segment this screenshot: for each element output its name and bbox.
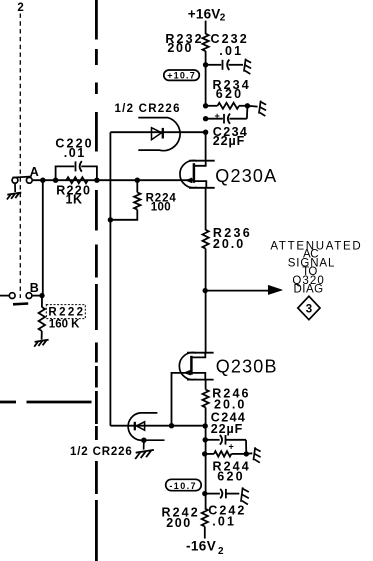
svg-text:20.0: 20.0 <box>214 397 246 411</box>
diode CR226 top package loop <box>138 118 180 151</box>
svg-text:.01: .01 <box>64 146 86 160</box>
label 2 for dashed line <box>17 2 23 14</box>
resistor R220 <box>66 177 88 183</box>
svg-text:620: 620 <box>217 469 244 483</box>
diode CR226 bottom <box>135 422 145 431</box>
node output junction <box>203 288 208 293</box>
ground chassis for R222 <box>34 340 48 347</box>
node R244 right junction <box>244 451 249 456</box>
node R224 junction <box>135 178 140 183</box>
label 1/2 CR226 bottom <box>70 446 133 458</box>
wire R246 down <box>205 407 207 454</box>
wire R242 to -16V <box>204 527 206 539</box>
ground chassis for C232 <box>244 59 251 74</box>
svg-text:20.0: 20.0 <box>213 237 245 251</box>
label A <box>30 165 39 179</box>
wire switch A to ground <box>14 183 16 192</box>
node CR226 loop ground junction <box>141 438 146 443</box>
svg-text:-16V: -16V <box>186 539 216 554</box>
resistor R222 <box>39 296 45 340</box>
resistor R236 <box>203 230 209 249</box>
label Q230B <box>216 356 278 376</box>
wire loop to ground <box>143 440 145 449</box>
wire node A to node B <box>42 180 44 295</box>
label R224 100 <box>146 192 177 213</box>
diagram reference diamond 3 <box>298 296 320 320</box>
capacitor C234 electrolytic <box>206 106 248 124</box>
diode CR226 bottom package loop <box>128 413 164 440</box>
svg-text:200: 200 <box>166 516 192 530</box>
label C232 .01 <box>211 32 249 58</box>
node C244 junction <box>203 437 208 442</box>
wire CR226 top diode <box>110 131 205 133</box>
node C232 junction <box>203 62 208 67</box>
wire +16V to R232 <box>205 21 207 34</box>
transistor Q230A <box>180 161 215 188</box>
label R246 20.0 <box>212 386 250 411</box>
ground chassis for C242 <box>241 487 249 504</box>
wire to C242 node <box>205 454 207 509</box>
node R234 right junction <box>245 103 250 108</box>
wire diode bus vertical <box>109 132 111 426</box>
svg-text:+10.7: +10.7 <box>167 71 196 81</box>
svg-text:Q230A: Q230A <box>215 166 277 186</box>
switch contact B <box>9 293 43 305</box>
svg-text:DIAG: DIAG <box>293 284 323 296</box>
node C220 right junction <box>94 178 99 183</box>
node C220 left junction <box>53 178 58 183</box>
svg-text:-10.7: -10.7 <box>169 481 197 491</box>
wire Q230B collector down <box>205 380 207 390</box>
label R244 620 <box>213 459 251 483</box>
svg-text:22µF: 22µF <box>213 134 245 148</box>
label C234 22uF <box>213 125 248 148</box>
capacitor C244 electrolytic <box>206 435 247 454</box>
svg-text:1/2 CR226: 1/2 CR226 <box>70 446 133 458</box>
node R244 junction <box>202 451 207 456</box>
svg-text:+16V: +16V <box>188 7 221 22</box>
wire R234 node to ground <box>247 105 257 108</box>
test voltage oval -10.7 <box>166 479 202 491</box>
transistor Q230B <box>179 352 213 379</box>
wire main line above Q230A <box>205 132 207 161</box>
wire node A <box>32 179 194 181</box>
power -16V2 label <box>186 539 224 557</box>
shield boundary heavy dashed vertical line <box>95 0 98 561</box>
node C234 junction <box>203 116 208 121</box>
node A-B branch junction <box>40 178 45 183</box>
capacitor C232 <box>206 60 243 71</box>
capacitor C220 bypass loop <box>56 161 97 180</box>
label C242 .01 <box>208 503 246 528</box>
wire into switch B <box>0 295 9 297</box>
node R224 bottom junction <box>108 217 113 222</box>
label R234 620 <box>213 78 251 101</box>
svg-text:100: 100 <box>151 201 171 213</box>
svg-text:200: 200 <box>167 41 193 55</box>
svg-text:+: + <box>229 442 234 452</box>
ground chassis for R244 <box>253 447 260 462</box>
svg-text:2: 2 <box>17 2 23 14</box>
svg-text:.01: .01 <box>219 44 243 58</box>
label 1/2 CR226 top <box>115 103 181 115</box>
label B <box>30 281 39 295</box>
svg-text:22µF: 22µF <box>211 422 243 436</box>
ground chassis at switch A <box>7 193 21 200</box>
wire Q230A emitter down <box>205 188 207 230</box>
shield boundary heavy dashed horizontal line <box>0 401 92 404</box>
switch contact A <box>12 177 32 184</box>
label R220 1K <box>56 184 91 207</box>
node CR226 top junction on main line <box>203 130 208 135</box>
node CR226 bottom junction main line <box>203 423 208 428</box>
label R222 in selected-value box <box>46 305 85 331</box>
ground chassis for CR226 bottom <box>135 450 154 459</box>
resistor R232 <box>203 34 209 52</box>
label C220 .01 <box>55 137 93 161</box>
output arrow to Q320 <box>205 285 282 294</box>
node C242 junction <box>202 491 207 496</box>
svg-text:3: 3 <box>306 303 312 315</box>
svg-text:2: 2 <box>220 12 226 23</box>
svg-text:2: 2 <box>218 546 224 557</box>
svg-text:.01: .01 <box>212 515 236 529</box>
label attenuated ac signal <box>270 240 362 295</box>
ground chassis for R234 <box>259 101 266 116</box>
label R242 200 <box>162 505 200 530</box>
svg-text:+: + <box>215 111 220 121</box>
power +16V2 label <box>188 7 226 24</box>
diode CR226 top <box>152 128 163 140</box>
resistor R224 <box>110 180 140 220</box>
wire R244 to ground <box>246 452 252 455</box>
resistor R242 <box>202 509 208 527</box>
capacitor C242 <box>206 489 240 499</box>
label C244 22uF <box>211 410 246 436</box>
resistor R246 <box>203 390 209 408</box>
svg-text:620: 620 <box>216 87 243 101</box>
wire Q230B base <box>172 373 192 426</box>
svg-text:R222: R222 <box>48 307 85 319</box>
label Q230A <box>215 166 277 186</box>
label R232 200 <box>165 32 203 55</box>
wire R236 to output node <box>205 249 207 353</box>
shield dashed line thin (switch section, labeled 2) <box>19 14 21 299</box>
node R234 junction <box>203 103 208 108</box>
svg-text:160 K: 160 K <box>49 319 80 331</box>
resistor R244 <box>206 451 247 456</box>
svg-text:Q230B: Q230B <box>216 356 278 376</box>
wire CR226 bottom diode <box>110 425 205 427</box>
node B junction <box>39 293 44 298</box>
svg-text:1/2 CR226: 1/2 CR226 <box>115 103 181 115</box>
label R236 20.0 <box>213 226 252 251</box>
node Q230B base diode junction <box>169 423 174 428</box>
resistor R234 <box>206 103 248 109</box>
test voltage oval +10.7 <box>164 70 200 81</box>
svg-text:1K: 1K <box>66 193 83 207</box>
wire R232 to C232 node <box>205 51 207 106</box>
